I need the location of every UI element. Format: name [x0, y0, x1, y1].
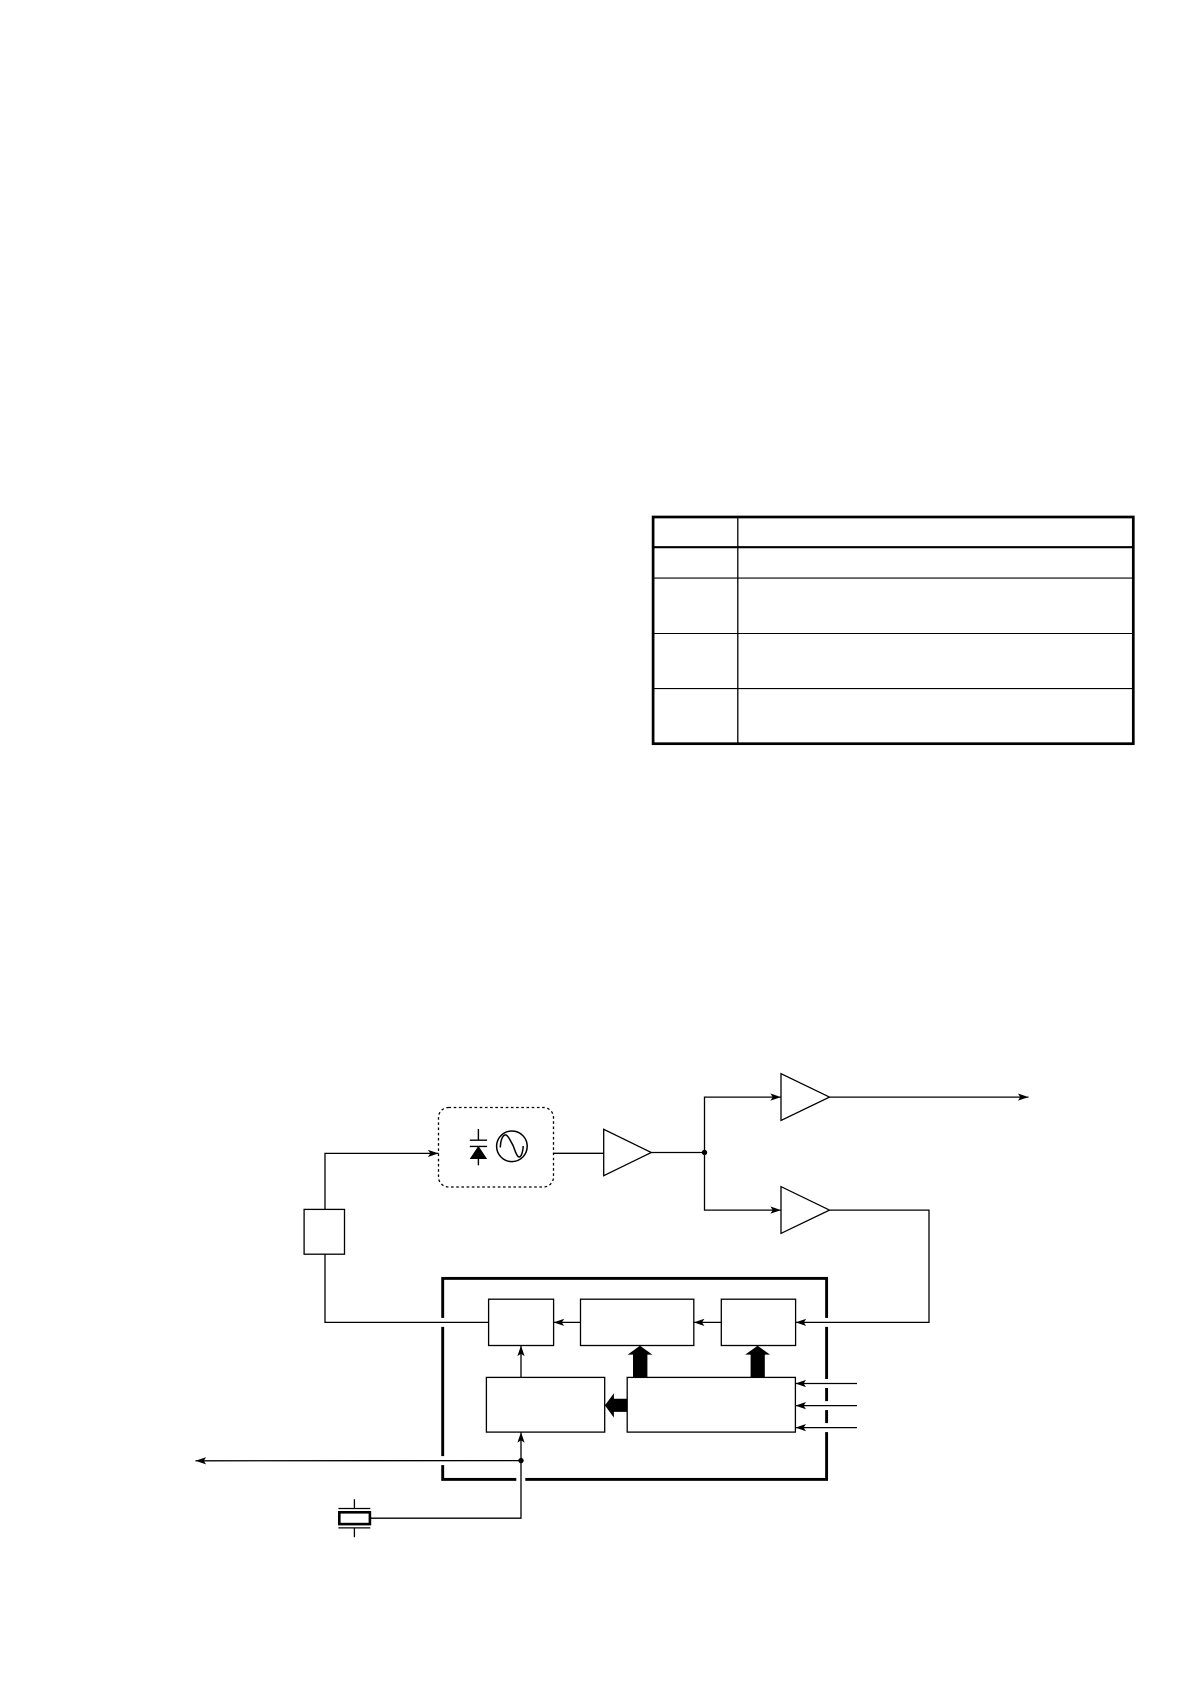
PLL IC outer box — [443, 1278, 827, 1479]
junction node — [702, 1150, 707, 1155]
reference divider box — [486, 1377, 604, 1432]
wire oscillator node to reference divider — [520, 1432, 522, 1461]
arrow divider to phase detector — [694, 1321, 722, 1323]
oscillator sine circle — [497, 1131, 528, 1162]
serial input line 1 — [795, 1383, 857, 1385]
wire upper output arrow — [830, 1096, 1029, 1098]
block arrow control to phase detector — [628, 1346, 653, 1378]
junction node oscillator — [518, 1458, 523, 1463]
arrow reference divider to charge pump — [520, 1346, 522, 1378]
wire amp to junction — [651, 1152, 704, 1154]
wire feedback amp to divider box — [796, 1210, 929, 1322]
white gaps where wires cross the IC outline — [443, 1318, 827, 1480]
wire charge pump out to loop filter — [325, 1254, 489, 1322]
wire junction to upper amp — [705, 1097, 782, 1152]
crystal X1 — [338, 1499, 370, 1537]
wire junction to crystal — [370, 1461, 521, 1519]
block arrow control to divider — [745, 1346, 770, 1378]
wire junction to lower amp — [705, 1153, 782, 1211]
divider box — [721, 1299, 795, 1345]
buffer amp triangle — [604, 1129, 652, 1175]
wire reference output arrow left — [196, 1460, 522, 1462]
lower feedback amp triangle — [781, 1187, 830, 1234]
serial input line 2 — [795, 1405, 857, 1407]
serial input line 3 — [795, 1427, 857, 1429]
phase detector box — [581, 1299, 694, 1345]
VCO dashed box — [439, 1108, 554, 1188]
table — [653, 517, 1133, 744]
arrow phase detector to charge pump — [554, 1321, 581, 1323]
wire VCO to buffer amp — [554, 1152, 604, 1154]
block arrow control to reference divider — [605, 1393, 627, 1417]
varactor diode — [470, 1129, 487, 1165]
upper output amp triangle — [781, 1074, 830, 1121]
wire loop filter to VCO — [325, 1153, 439, 1209]
control logic box — [627, 1377, 795, 1432]
loop filter box — [304, 1209, 344, 1254]
charge pump box — [489, 1299, 554, 1345]
